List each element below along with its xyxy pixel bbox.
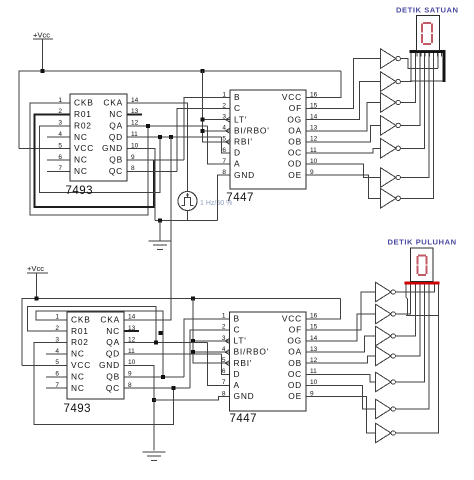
svg-text:12: 12 (310, 136, 318, 143)
svg-text:OC: OC (288, 148, 302, 158)
svg-text:16: 16 (310, 91, 318, 98)
svg-text:CKB: CKB (74, 98, 94, 108)
svg-text:OE: OE (288, 170, 302, 180)
svg-text:OF: OF (289, 103, 302, 113)
svg-text:10: 10 (128, 359, 136, 366)
svg-text:NC: NC (74, 155, 88, 165)
svg-text:3: 3 (58, 120, 62, 127)
svg-text:7447: 7447 (230, 413, 258, 425)
svg-text:VCC: VCC (282, 313, 302, 323)
svg-text:6: 6 (55, 371, 59, 378)
svg-text:1: 1 (58, 97, 62, 104)
svg-text:10: 10 (310, 379, 318, 386)
svg-text:3: 3 (55, 336, 59, 343)
svg-text:7447: 7447 (226, 192, 254, 204)
svg-text:1: 1 (222, 313, 226, 320)
svg-text:OA: OA (288, 125, 302, 135)
svg-text:RBI': RBI' (234, 358, 253, 368)
svg-text:14: 14 (310, 335, 318, 342)
svg-text:13: 13 (131, 108, 139, 115)
svg-text:QC: QC (109, 166, 123, 176)
svg-text:9: 9 (310, 169, 314, 176)
svg-text:13: 13 (128, 325, 136, 332)
svg-text:NC: NC (106, 326, 120, 336)
svg-text:QB: QB (106, 371, 120, 381)
svg-text:B: B (234, 313, 240, 323)
svg-text:R02: R02 (71, 337, 89, 347)
svg-text:+Vcc: +Vcc (33, 31, 50, 40)
svg-text:GND: GND (102, 143, 123, 153)
svg-text:9: 9 (310, 390, 314, 397)
svg-text:DETIK SATUAN: DETIK SATUAN (396, 5, 459, 14)
svg-text:QC: QC (106, 383, 120, 393)
svg-text:OF: OF (289, 325, 302, 335)
svg-text:1: 1 (55, 314, 59, 321)
svg-text:6: 6 (222, 368, 226, 375)
svg-text:2: 2 (55, 325, 59, 332)
svg-text:1: 1 (222, 91, 226, 98)
svg-text:QB: QB (109, 155, 123, 165)
svg-text:GND: GND (234, 391, 255, 401)
svg-text:2: 2 (58, 108, 62, 115)
svg-text:8: 8 (222, 169, 226, 176)
svg-text:BI/RBO': BI/RBO' (234, 347, 270, 357)
svg-text:11: 11 (128, 348, 135, 355)
svg-text:OA: OA (288, 347, 302, 357)
svg-text:7: 7 (222, 158, 226, 165)
svg-text:2: 2 (222, 324, 226, 331)
svg-text:GND: GND (99, 360, 120, 370)
svg-text:CKA: CKA (100, 314, 120, 324)
svg-text:VCC: VCC (282, 92, 302, 102)
svg-text:+Vcc: +Vcc (27, 264, 44, 273)
svg-text:7493: 7493 (64, 403, 92, 415)
svg-text:10: 10 (310, 158, 318, 165)
svg-text:VCC: VCC (71, 360, 91, 370)
svg-text:R01: R01 (74, 109, 92, 119)
svg-text:12: 12 (128, 336, 136, 343)
svg-text:C: C (234, 325, 241, 335)
svg-text:NC: NC (71, 383, 85, 393)
svg-text:OG: OG (287, 114, 302, 124)
svg-text:6: 6 (222, 147, 226, 154)
svg-text:OG: OG (287, 336, 302, 346)
svg-text:9: 9 (128, 371, 132, 378)
svg-text:LT': LT' (234, 114, 247, 124)
svg-text:13: 13 (310, 346, 318, 353)
svg-text:C: C (234, 103, 241, 113)
svg-text:A: A (234, 380, 240, 390)
svg-text:D: D (234, 369, 241, 379)
svg-text:6: 6 (58, 154, 62, 161)
svg-text:OD: OD (288, 159, 302, 169)
svg-text:8: 8 (222, 390, 226, 397)
svg-text:14: 14 (131, 97, 139, 104)
svg-text:NC: NC (74, 166, 88, 176)
svg-text:10: 10 (131, 142, 139, 149)
svg-text:9: 9 (131, 154, 135, 161)
svg-text:QD: QD (109, 132, 123, 142)
svg-text:OB: OB (288, 137, 302, 147)
svg-text:NC: NC (71, 349, 85, 359)
svg-text:2: 2 (222, 102, 226, 109)
svg-text:QA: QA (109, 120, 123, 130)
svg-text:B: B (234, 92, 240, 102)
svg-text:R01: R01 (71, 326, 89, 336)
svg-text:VCC: VCC (74, 143, 94, 153)
svg-text:8: 8 (131, 165, 135, 172)
svg-text:7: 7 (58, 165, 62, 172)
svg-text:OC: OC (288, 369, 302, 379)
svg-text:D: D (234, 148, 241, 158)
svg-text:7: 7 (222, 379, 226, 386)
svg-text:OD: OD (288, 380, 302, 390)
svg-text:15: 15 (310, 324, 318, 331)
svg-text:4: 4 (58, 131, 62, 138)
svg-text:7493: 7493 (66, 185, 94, 197)
svg-text:DETIK PULUHAN: DETIK PULUHAN (388, 237, 457, 246)
svg-text:QD: QD (106, 349, 120, 359)
svg-text:5: 5 (55, 359, 59, 366)
svg-text:OE: OE (288, 391, 302, 401)
svg-text:NC: NC (74, 132, 88, 142)
svg-text:OB: OB (288, 358, 302, 368)
svg-text:14: 14 (310, 114, 318, 121)
svg-text:11: 11 (310, 368, 317, 375)
svg-text:NC: NC (109, 109, 123, 119)
svg-text:RBI': RBI' (234, 137, 253, 147)
svg-text:16: 16 (310, 313, 318, 320)
svg-text:4: 4 (55, 348, 59, 355)
svg-text:11: 11 (310, 147, 317, 154)
svg-text:BI/RBO': BI/RBO' (234, 125, 270, 135)
svg-text:LT': LT' (234, 336, 247, 346)
svg-text:14: 14 (128, 314, 136, 321)
svg-text:QA: QA (106, 337, 120, 347)
svg-text:7: 7 (55, 382, 59, 389)
svg-text:12: 12 (131, 120, 139, 127)
svg-text:CKB: CKB (71, 314, 91, 324)
svg-text:8: 8 (128, 382, 132, 389)
svg-text:13: 13 (310, 125, 318, 132)
svg-text:12: 12 (310, 357, 318, 364)
svg-text:GND: GND (234, 170, 255, 180)
svg-text:15: 15 (310, 102, 318, 109)
svg-text:5: 5 (58, 142, 62, 149)
svg-text:A: A (234, 159, 240, 169)
svg-text:CKA: CKA (103, 98, 123, 108)
svg-text:11: 11 (131, 131, 138, 138)
svg-text:NC: NC (71, 371, 85, 381)
svg-text:R02: R02 (74, 120, 92, 130)
